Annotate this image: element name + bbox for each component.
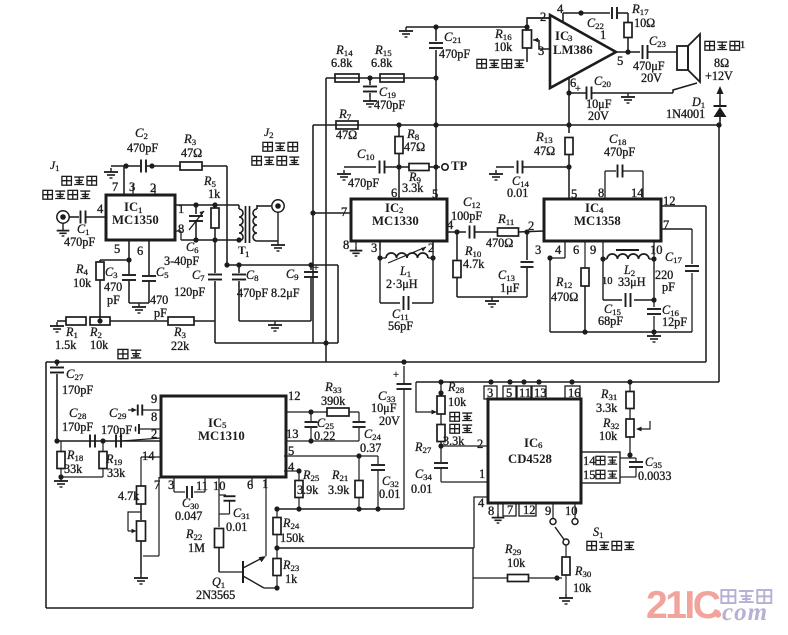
IC U1 MC1350 bbox=[106, 195, 175, 240]
IC5 left pin numbers bbox=[142, 392, 157, 463]
speaker bbox=[673, 34, 745, 93]
svg-text:470: 470 bbox=[104, 280, 122, 294]
capacitor at IC5 pin9 bbox=[128, 405, 161, 416]
svg-text:pF: pF bbox=[154, 306, 167, 320]
resistor R33 390k in loop bbox=[311, 380, 359, 416]
wire right side of output cage bbox=[337, 265, 339, 343]
svg-text:5: 5 bbox=[114, 242, 120, 256]
svg-text:12pF: 12pF bbox=[662, 315, 687, 329]
ground at C2 input node bbox=[104, 166, 118, 178]
svg-text:470pF: 470pF bbox=[374, 98, 405, 112]
wire IC5 pin7 column bbox=[143, 477, 160, 556]
wire IC6 pin2 row bbox=[441, 437, 488, 451]
capacitor C17 220pF bbox=[655, 229, 699, 332]
inductor L2 33uH bbox=[602, 250, 654, 289]
svg-text:470pF: 470pF bbox=[439, 47, 470, 61]
svg-text:22k: 22k bbox=[171, 339, 190, 353]
resistor R27 3.3k bbox=[414, 414, 465, 462]
svg-text:47Ω: 47Ω bbox=[181, 146, 202, 160]
resistor R11 470ohm bbox=[486, 212, 544, 250]
svg-text:10k: 10k bbox=[90, 338, 109, 352]
wire row y240 under IC1 bbox=[181, 237, 242, 242]
wire IC6 pin4 route bbox=[474, 496, 488, 548]
svg-text:+: + bbox=[313, 263, 319, 274]
svg-text:5: 5 bbox=[506, 386, 512, 400]
resistor R17 10ohm bbox=[624, 2, 655, 52]
ground T1 secondary at J2 bbox=[271, 212, 285, 251]
wire C2 node bbox=[111, 163, 155, 168]
wire left border bbox=[45, 362, 47, 608]
wire IC5 pin14 to 4.7k bbox=[141, 457, 161, 486]
svg-text:2N3565: 2N3565 bbox=[196, 588, 235, 602]
svg-text:6: 6 bbox=[137, 244, 143, 258]
transistor Q1 2N3565 bbox=[196, 556, 277, 602]
resistor R29 10k bbox=[473, 542, 562, 582]
svg-text:8: 8 bbox=[343, 238, 349, 252]
svg-text:13: 13 bbox=[286, 427, 299, 441]
wire IC1 pin6 stub bbox=[148, 240, 150, 275]
svg-text:11: 11 bbox=[519, 386, 531, 400]
svg-text:2: 2 bbox=[528, 219, 534, 233]
svg-text:0.01: 0.01 bbox=[226, 520, 247, 534]
svg-text:+: + bbox=[575, 84, 581, 95]
svg-text:3: 3 bbox=[568, 33, 573, 43]
svg-text:10: 10 bbox=[565, 504, 578, 518]
svg-text:170pF: 170pF bbox=[101, 423, 132, 437]
svg-text:MC1358: MC1358 bbox=[574, 214, 621, 228]
svg-text:10k: 10k bbox=[599, 429, 618, 443]
svg-text:47Ω: 47Ω bbox=[336, 128, 357, 142]
stub at IC5 pin8 bbox=[136, 424, 162, 434]
svg-text:pF: pF bbox=[662, 280, 675, 294]
svg-text:3: 3 bbox=[129, 180, 135, 194]
connector J1 RF input jack bbox=[43, 159, 97, 236]
wire row y548 bbox=[274, 545, 474, 550]
capacitor C11 56pF bbox=[388, 296, 413, 333]
IC2 bottom pin stubs bbox=[371, 241, 434, 255]
switch S1 polarity select bbox=[550, 503, 634, 550]
inductor L1 2.3uH bbox=[380, 247, 433, 291]
capacitor C29 170pF bbox=[101, 406, 132, 448]
svg-text:9: 9 bbox=[590, 243, 596, 257]
svg-text:3.3k: 3.3k bbox=[402, 181, 424, 195]
capacitor C35 0.0033 bbox=[620, 455, 671, 483]
svg-text:1: 1 bbox=[479, 467, 485, 481]
svg-text:10μF: 10μF bbox=[371, 401, 397, 415]
svg-text:1: 1 bbox=[245, 249, 249, 259]
potentiometer R28 10k bbox=[437, 380, 472, 433]
resistor R25 3.9k bbox=[295, 468, 320, 509]
svg-text:120pF: 120pF bbox=[174, 285, 205, 299]
wire row y78 bbox=[326, 75, 439, 80]
svg-text:10Ω: 10Ω bbox=[634, 16, 655, 30]
capacitor C10 470pF bbox=[348, 147, 409, 190]
transformer T1 bbox=[238, 205, 278, 259]
wire IC1 pin8 route bbox=[175, 231, 181, 240]
capacitor C9 8.2uF bbox=[271, 263, 319, 321]
svg-text:7: 7 bbox=[112, 180, 118, 194]
svg-text:20V: 20V bbox=[379, 414, 400, 428]
svg-text:10k: 10k bbox=[507, 556, 526, 570]
svg-text:33μH: 33μH bbox=[618, 275, 646, 289]
wire IC5 pin10 column bbox=[213, 477, 226, 527]
svg-text:10k: 10k bbox=[494, 40, 513, 54]
svg-text:+12V: +12V bbox=[705, 69, 733, 83]
svg-text:7: 7 bbox=[507, 503, 513, 517]
svg-text:0.0033: 0.0033 bbox=[638, 469, 671, 483]
ground bias row left bbox=[50, 321, 64, 332]
svg-text:pF: pF bbox=[107, 293, 120, 307]
wire bottom border bbox=[46, 607, 473, 609]
svg-text:IC: IC bbox=[585, 201, 599, 215]
svg-text:+: + bbox=[393, 370, 399, 381]
svg-text:8: 8 bbox=[151, 410, 157, 424]
resistor R1 1.5k bbox=[55, 317, 86, 352]
svg-text:470pF: 470pF bbox=[127, 141, 158, 155]
svg-text:11: 11 bbox=[196, 479, 208, 493]
svg-text:0.01: 0.01 bbox=[411, 482, 432, 496]
svg-text:com: com bbox=[722, 599, 768, 626]
IC U2 MC1330 bbox=[351, 199, 447, 241]
svg-text:IC: IC bbox=[124, 200, 138, 214]
svg-text:16: 16 bbox=[568, 386, 581, 400]
wire IC5 pin6 stub bbox=[247, 477, 253, 492]
resistor R10 4.7k bbox=[453, 232, 485, 297]
wire vertical x326 from R14 bbox=[325, 78, 327, 362]
pulse width box pins 14 15 bbox=[581, 452, 620, 483]
capacitor C24 0.37 right side of loop bbox=[353, 412, 382, 455]
op-amp IC3 LM386 bbox=[538, 2, 623, 90]
svg-text:13: 13 bbox=[534, 386, 547, 400]
wire T1 to J2 jack bbox=[257, 205, 271, 207]
svg-text:10k: 10k bbox=[573, 581, 592, 595]
IC U5 MC1310 bbox=[161, 396, 286, 477]
svg-text:0.01: 0.01 bbox=[507, 186, 528, 200]
capacitor C31 0.01 bbox=[219, 495, 250, 534]
svg-text:0.047: 0.047 bbox=[175, 509, 202, 523]
capacitor C22 bbox=[587, 7, 628, 31]
svg-text:1k: 1k bbox=[208, 187, 221, 201]
tank circuit L1 frame bbox=[377, 250, 435, 303]
svg-text:10k: 10k bbox=[73, 276, 92, 290]
svg-text:3: 3 bbox=[487, 386, 493, 400]
svg-text:8.2μF: 8.2μF bbox=[271, 286, 300, 300]
ground C14 node bbox=[489, 167, 514, 180]
svg-text:21IC: 21IC bbox=[646, 584, 721, 627]
svg-text:470Ω: 470Ω bbox=[486, 236, 513, 250]
svg-text:68pF: 68pF bbox=[598, 314, 623, 328]
wire rail B up to diode node bbox=[718, 126, 720, 382]
IC U6 CD4528 bbox=[488, 399, 581, 503]
svg-text:1M: 1M bbox=[188, 541, 205, 555]
trimmer capacitor C6 3-40pF bbox=[164, 205, 204, 268]
svg-text:15: 15 bbox=[583, 468, 596, 482]
wire R3 feeder x227 bbox=[226, 166, 228, 265]
resistor R13 47ohm bbox=[534, 125, 577, 201]
wire IC5 pin13 row loop bottom bbox=[286, 438, 359, 443]
svg-text:470Ω: 470Ω bbox=[551, 290, 578, 304]
capacitor C13 1uF bbox=[498, 232, 534, 297]
svg-text:3: 3 bbox=[538, 44, 544, 58]
capacitor C7 120pF bbox=[174, 240, 222, 343]
wire bottom step bbox=[472, 548, 474, 608]
capacitor C5 bbox=[142, 265, 169, 320]
svg-text:CD4528: CD4528 bbox=[508, 452, 552, 466]
wire long rail y125 bbox=[313, 122, 722, 127]
resistor R30 10k bbox=[559, 545, 592, 604]
svg-text:1k: 1k bbox=[285, 572, 298, 586]
svg-text:20V: 20V bbox=[641, 71, 662, 85]
svg-text:170pF: 170pF bbox=[62, 420, 93, 434]
capacitor C8 470pF bbox=[232, 265, 268, 321]
capacitor C34 0.01 bbox=[411, 463, 488, 496]
capacitor C20 10uF bbox=[569, 74, 673, 123]
svg-text:6.8k: 6.8k bbox=[331, 56, 353, 70]
capacitor C25 0.22 left side of loop bbox=[305, 412, 336, 443]
wire IC4 pin4 route bbox=[547, 241, 565, 332]
diode D1 1N4001 bbox=[666, 86, 727, 126]
svg-text:12: 12 bbox=[663, 194, 676, 208]
svg-text:7: 7 bbox=[663, 218, 669, 232]
wire IC4 pin12 to right bbox=[661, 194, 706, 208]
svg-text:8: 8 bbox=[598, 186, 604, 200]
svg-text:33k: 33k bbox=[107, 466, 126, 480]
connector J2 RF output jack bbox=[252, 126, 299, 212]
svg-text:4: 4 bbox=[288, 460, 295, 474]
svg-text:390k: 390k bbox=[321, 394, 346, 408]
resistor R23 1k bbox=[273, 548, 300, 591]
resistor R9 3.3k bbox=[396, 164, 440, 196]
watermark 21IC logo bbox=[646, 584, 721, 627]
wire pin2 of IC3 bbox=[527, 17, 550, 19]
svg-text:9: 9 bbox=[151, 392, 157, 406]
wire IC5 pin2 row bbox=[121, 438, 161, 441]
svg-text:1: 1 bbox=[178, 202, 184, 216]
svg-text:2: 2 bbox=[540, 10, 546, 24]
wire row y441 bbox=[54, 438, 161, 443]
wire IC5 pin5 row bbox=[284, 453, 378, 458]
wire IC5 pin12 row bbox=[286, 409, 314, 414]
svg-text:20V: 20V bbox=[588, 109, 609, 123]
wire pin5 output node bbox=[616, 49, 640, 54]
svg-text:10: 10 bbox=[650, 243, 663, 257]
resistor R3 47ohm bbox=[180, 132, 227, 170]
capacitor C32 0.01 bbox=[371, 456, 400, 509]
wire C8 C9 top row bbox=[224, 262, 338, 267]
pin numbers IC1 sides bbox=[97, 202, 184, 258]
capacitor C18 470pF loop pins 8-14 bbox=[598, 132, 644, 200]
wire IC3 pin6 down bbox=[566, 78, 571, 126]
wire IC4 pin12 feed x706 bbox=[705, 206, 707, 362]
resistor R15 6.8k bbox=[371, 43, 404, 82]
capacitor C33 10uF 20V bbox=[371, 366, 412, 509]
svg-text:MC1310: MC1310 bbox=[198, 429, 245, 443]
svg-text:10k: 10k bbox=[448, 395, 467, 409]
svg-text:3.9k: 3.9k bbox=[297, 483, 319, 497]
svg-text:14: 14 bbox=[631, 186, 644, 200]
svg-text:0.01: 0.01 bbox=[379, 487, 400, 501]
resistor R24 150k bbox=[273, 509, 305, 548]
svg-text:14: 14 bbox=[142, 449, 155, 463]
resistor R2 10k bbox=[89, 317, 168, 352]
watermark com script bbox=[722, 599, 768, 626]
svg-text:1: 1 bbox=[740, 40, 745, 51]
capacitor C23 470uF bbox=[633, 34, 677, 85]
wire row y509 bbox=[274, 506, 404, 511]
svg-text:LM386: LM386 bbox=[553, 43, 593, 57]
resistor R5 1k bbox=[203, 174, 221, 240]
svg-text:1: 1 bbox=[262, 477, 268, 491]
capacitor C27 170pF bbox=[50, 362, 93, 441]
capacitor C16 12pF bbox=[647, 300, 687, 332]
svg-text:MC1330: MC1330 bbox=[372, 214, 419, 228]
resistor R4 10k bbox=[73, 260, 104, 321]
wire IC1 pin1 row to T1 bbox=[175, 202, 239, 207]
svg-text:56pF: 56pF bbox=[388, 319, 413, 333]
capacitor C12 100pF bbox=[451, 195, 498, 239]
bias label bbox=[118, 349, 141, 358]
svg-text:470: 470 bbox=[150, 293, 168, 307]
svg-text:TP: TP bbox=[451, 159, 468, 173]
svg-text:6: 6 bbox=[573, 243, 579, 257]
ground C10 node bbox=[337, 167, 376, 180]
svg-text:6.8k: 6.8k bbox=[371, 56, 393, 70]
wire IC2 pin7 bbox=[310, 205, 351, 219]
svg-text:1μF: 1μF bbox=[500, 281, 520, 295]
svg-text:3.3k: 3.3k bbox=[596, 401, 618, 415]
IC6 top pin boxes bbox=[484, 386, 581, 400]
wire IC5 pin4 row bbox=[284, 468, 302, 473]
potentiometer R32 10k bbox=[599, 416, 650, 458]
svg-text:IC: IC bbox=[208, 416, 222, 430]
svg-text:150k: 150k bbox=[280, 531, 305, 545]
svg-text:4: 4 bbox=[478, 496, 485, 510]
svg-text:12: 12 bbox=[288, 389, 301, 403]
svg-text:4: 4 bbox=[97, 202, 104, 216]
resistor R3b 22k bbox=[97, 317, 215, 353]
wire R10 C13 bottom with ground bbox=[457, 297, 527, 307]
capacitor C1 bbox=[64, 211, 106, 250]
test point TP bbox=[442, 159, 468, 173]
svg-text:5: 5 bbox=[617, 54, 623, 68]
capacitor C21 470pF bbox=[429, 27, 470, 78]
capacitor C30 0.047 bbox=[168, 477, 208, 523]
svg-text:4.7k: 4.7k bbox=[463, 257, 485, 271]
resistor R22 1M bbox=[185, 527, 224, 572]
resistor R18 33k bbox=[57, 441, 84, 477]
resistor R31 3.3k bbox=[596, 382, 634, 419]
svg-text:1N4001: 1N4001 bbox=[666, 107, 705, 121]
svg-text:47Ω: 47Ω bbox=[404, 140, 425, 154]
svg-text:3: 3 bbox=[168, 478, 174, 492]
capacitor C3 bbox=[104, 260, 136, 307]
resistor 4.7k bbox=[118, 486, 146, 520]
resistor R7 47ohm bbox=[336, 107, 358, 142]
svg-text:2: 2 bbox=[477, 437, 483, 451]
resistor R12 470ohm bbox=[551, 241, 589, 332]
top rail y27 with ground bbox=[399, 18, 550, 37]
capacitor C28 170pF bbox=[62, 406, 95, 448]
resistor R14 6.8k bbox=[331, 43, 359, 82]
wire R18 R19 common ground bbox=[54, 474, 103, 487]
svg-text:3: 3 bbox=[535, 243, 541, 257]
svg-text:3-40pF: 3-40pF bbox=[164, 254, 199, 268]
svg-text:170pF: 170pF bbox=[62, 383, 93, 397]
svg-text:1.5k: 1.5k bbox=[55, 338, 77, 352]
svg-text:IC: IC bbox=[524, 436, 538, 450]
svg-text:10: 10 bbox=[602, 276, 612, 287]
svg-text:6: 6 bbox=[538, 440, 543, 450]
svg-text:12: 12 bbox=[523, 503, 536, 517]
svg-text:8Ω: 8Ω bbox=[714, 56, 729, 70]
capacitor C15 68pF bbox=[598, 293, 631, 328]
wire IC5 pin1 column bbox=[262, 477, 268, 556]
wire IC2 pin4 output row bbox=[447, 218, 466, 235]
wire C8 C9 bottom with ground bbox=[239, 321, 311, 331]
wire pin4 top of IC3 bbox=[563, 10, 610, 21]
capacitor C14 0.01 bbox=[507, 161, 572, 201]
svg-text:470pF: 470pF bbox=[237, 286, 268, 300]
svg-text:4: 4 bbox=[555, 243, 562, 257]
wire bottom row y332 with ground bbox=[550, 329, 692, 342]
svg-text:470pF: 470pF bbox=[604, 145, 635, 159]
potentiometer R16 10k volume bbox=[477, 24, 550, 68]
capacitor C19 470pF bbox=[363, 78, 405, 112]
svg-text:4.7k: 4.7k bbox=[118, 489, 140, 503]
svg-text:0.37: 0.37 bbox=[360, 441, 381, 455]
resistor R21 3.9k bbox=[328, 456, 363, 509]
resistor R8 47ohm bbox=[395, 125, 425, 167]
svg-text:MC1350: MC1350 bbox=[112, 213, 159, 227]
svg-text:9: 9 bbox=[545, 504, 551, 518]
wire C3 C5 bottom with ground bbox=[129, 303, 149, 313]
wire IC2 pin6 pin5 stubs bbox=[391, 78, 438, 201]
IC6 bottom pins bbox=[488, 503, 578, 523]
wire vertical x313 bbox=[312, 125, 314, 343]
svg-text:100pF: 100pF bbox=[451, 209, 482, 223]
svg-text:3.9k: 3.9k bbox=[328, 483, 350, 497]
svg-text:3: 3 bbox=[371, 241, 377, 255]
svg-text:7: 7 bbox=[341, 205, 347, 219]
potentiometer below 4.7k bbox=[128, 512, 148, 584]
wire row y343 bbox=[215, 340, 338, 345]
svg-text:8: 8 bbox=[488, 504, 494, 518]
IC U4 MC1358 bbox=[544, 199, 661, 241]
IC5 right pin wires bbox=[286, 389, 301, 474]
IC2 pin8 ground bbox=[343, 238, 362, 256]
capacitor C2 bbox=[127, 126, 181, 173]
svg-text:IC: IC bbox=[385, 201, 399, 215]
ground C20 output node bbox=[621, 93, 635, 103]
svg-text:33k: 33k bbox=[64, 462, 83, 476]
wire rail B y382 +12V to IC6 bbox=[416, 379, 719, 384]
svg-text:470pF: 470pF bbox=[348, 176, 379, 190]
wire IC1 pin5 stub bbox=[126, 240, 131, 263]
IC4 bottom pin numbers bbox=[535, 243, 663, 257]
svg-text:47Ω: 47Ω bbox=[534, 144, 555, 158]
wire R28 wiper loop bbox=[416, 382, 437, 414]
tank circuit L2 frame bbox=[600, 241, 656, 303]
svg-text:14: 14 bbox=[583, 454, 596, 468]
svg-text:470pF: 470pF bbox=[64, 235, 95, 249]
wire row y260 to R4 bbox=[100, 259, 129, 261]
svg-text:2·3μH: 2·3μH bbox=[386, 277, 418, 291]
wire pin7 stub of IC1 bbox=[112, 166, 156, 195]
watermark chinese text bbox=[721, 590, 771, 603]
resistor R19 33k bbox=[99, 441, 126, 480]
wire long rail A y362 bbox=[46, 359, 706, 364]
wire IC4 pin7 to C17 bbox=[661, 218, 692, 232]
